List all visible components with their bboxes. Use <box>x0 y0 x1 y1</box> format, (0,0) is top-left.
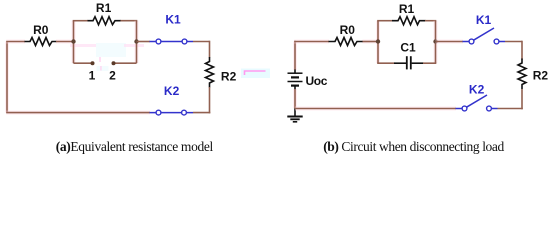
wire: box to K1 (a) <box>137 41 151 43</box>
resistor R0 (a) <box>25 38 57 46</box>
svg-text:1: 1 <box>89 69 96 83</box>
wire: bottom stub to terminal 2 (a) <box>114 62 137 64</box>
wire: right vertical upper (b) <box>521 41 523 60</box>
wire: box top right segment (a) <box>121 20 138 22</box>
wire: box top left segment (b) <box>377 20 392 22</box>
terminal node 1 (a) <box>91 61 95 65</box>
svg-text:R2: R2 <box>533 69 549 83</box>
wire: box bottom right segment (b) <box>423 62 436 64</box>
svg-text:R0: R0 <box>33 23 49 37</box>
resistor R1 (a) <box>88 17 122 25</box>
wire: bottom horizontal left of K2 (b) <box>295 107 456 111</box>
wire: K1 to top right corner (b) <box>505 41 522 43</box>
wire: battery bottom vertical (b) <box>293 89 297 109</box>
svg-text:R0: R0 <box>340 23 356 37</box>
capacitor C1 (b) <box>394 56 424 69</box>
wire: right vertical lower (a) <box>209 87 211 113</box>
switch K2 closed (a) <box>150 110 194 115</box>
svg-text:R2: R2 <box>221 70 237 84</box>
wire: box top right segment (b) <box>425 20 436 22</box>
svg-text:K1: K1 <box>476 13 492 27</box>
svg-text:C1: C1 <box>400 41 416 55</box>
wire: K1 to top right corner (a) <box>193 41 210 43</box>
wire: box right side (b) <box>434 21 438 64</box>
wire: R0 to box (b) <box>363 40 379 44</box>
wire: box top left segment (a) <box>73 20 88 22</box>
wire: top left horizontal to R0 (a) <box>6 40 25 44</box>
svg-text:Uoc: Uoc <box>306 74 328 88</box>
switch K2 open (b) <box>456 95 498 111</box>
wire: right vertical lower (b) <box>521 89 523 109</box>
svg-text:R1: R1 <box>96 1 112 15</box>
junction dot left (a) <box>71 39 75 43</box>
svg-text:K2: K2 <box>469 83 485 97</box>
wire: bottom right horizontal (a) <box>193 112 210 114</box>
wire: R0 to parallel box (a) <box>56 40 74 44</box>
wire: box to K1 (b) <box>436 40 464 44</box>
wire: box left side (b) <box>376 21 380 64</box>
junction dot left (b) <box>376 39 380 43</box>
wire: right vertical upper (a) <box>209 41 211 58</box>
resistor R1 (b) <box>392 17 426 25</box>
resistor R0 (b) <box>329 38 364 46</box>
wire: top horizontal to R0 (b) <box>294 40 329 44</box>
wire: box right side (a) <box>135 21 139 64</box>
svg-text:2: 2 <box>109 69 116 83</box>
junction dot right (b) <box>433 39 437 43</box>
wire: box bottom left segment (b) <box>377 62 394 64</box>
svg-text:K1: K1 <box>165 13 181 27</box>
svg-text:(a)Equivalent resistance model: (a)Equivalent resistance model <box>56 139 214 154</box>
wire: left vertical (a) <box>5 42 9 113</box>
svg-text:(b) Circuit when disconnecting: (b) Circuit when disconnecting load <box>323 139 504 154</box>
wire: battery top vertical (b) <box>293 41 297 70</box>
voltage source Uoc battery (b) <box>288 70 303 90</box>
switch K1 closed (a) <box>150 39 194 44</box>
svg-text:R1: R1 <box>399 2 415 16</box>
resistor R2 (b) <box>518 59 526 90</box>
junction dot right (a) <box>134 39 138 43</box>
wire: bottom horizontal right of K2 (b) <box>498 108 523 110</box>
wire: box left side (a) <box>72 21 76 64</box>
erased-wire ghost artifact between circuits <box>241 69 270 79</box>
wire: bottom stub to terminal 1 (a) <box>74 62 93 64</box>
erased C1 ghost artifacts inside box (a) <box>70 43 144 71</box>
resistor R2 (a) <box>206 57 214 88</box>
switch K1 open (b) <box>463 28 506 44</box>
wire: bottom left horizontal (a) <box>6 111 150 115</box>
ground symbol (b) <box>287 109 302 122</box>
svg-text:K2: K2 <box>164 84 180 98</box>
terminal node 2 (a) <box>112 61 116 65</box>
